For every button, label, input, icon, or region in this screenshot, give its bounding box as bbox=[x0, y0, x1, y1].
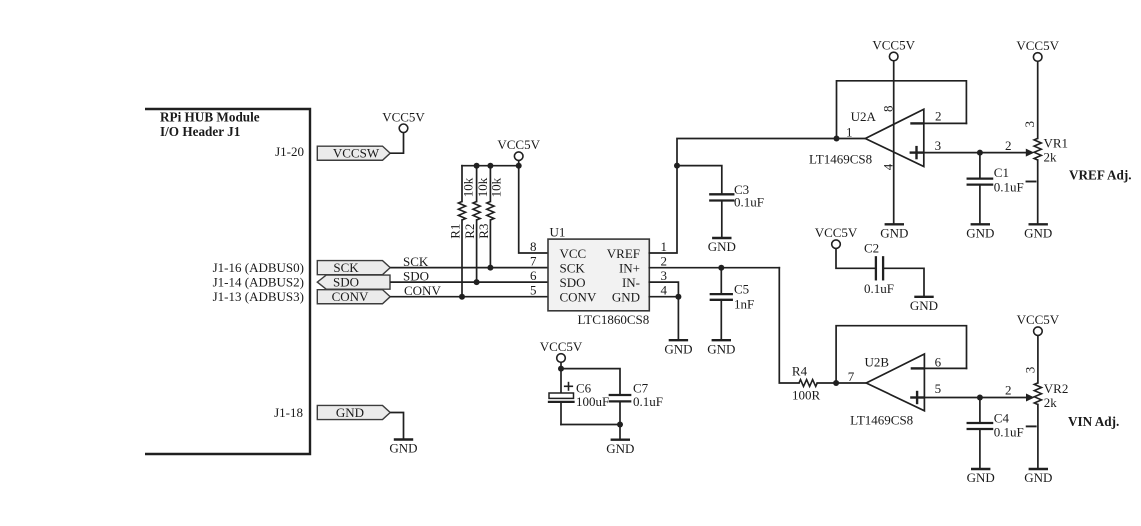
svg-text:SDO: SDO bbox=[333, 275, 359, 290]
svg-text:0.1uF: 0.1uF bbox=[864, 281, 894, 296]
svg-text:GND: GND bbox=[389, 441, 417, 456]
svg-text:100R: 100R bbox=[792, 387, 821, 402]
svg-text:0.1uF: 0.1uF bbox=[994, 425, 1024, 440]
svg-text:2k: 2k bbox=[1044, 395, 1058, 410]
svg-text:10k: 10k bbox=[460, 177, 475, 197]
svg-text:GND: GND bbox=[1024, 226, 1052, 241]
svg-text:J1-18: J1-18 bbox=[274, 405, 303, 420]
svg-text:4: 4 bbox=[881, 163, 896, 170]
svg-text:VCC5V: VCC5V bbox=[1016, 38, 1059, 53]
svg-text:VREF Adj.: VREF Adj. bbox=[1069, 167, 1132, 182]
svg-text:VCC5V: VCC5V bbox=[540, 339, 583, 354]
svg-text:3: 3 bbox=[1022, 367, 1037, 374]
svg-text:LT1469CS8: LT1469CS8 bbox=[850, 413, 913, 428]
svg-text:2: 2 bbox=[1005, 382, 1012, 397]
svg-text:5: 5 bbox=[935, 381, 942, 396]
svg-text:GND: GND bbox=[880, 226, 908, 241]
svg-text:5: 5 bbox=[530, 283, 537, 298]
svg-text:VCC5V: VCC5V bbox=[1017, 312, 1060, 327]
svg-text:2k: 2k bbox=[1044, 149, 1058, 164]
svg-text:CONV: CONV bbox=[332, 289, 369, 304]
svg-text:2: 2 bbox=[935, 109, 942, 124]
svg-text:SCK: SCK bbox=[403, 254, 429, 269]
svg-text:4: 4 bbox=[661, 283, 668, 298]
svg-text:VCC5V: VCC5V bbox=[815, 225, 858, 240]
svg-text:1nF: 1nF bbox=[734, 296, 754, 311]
svg-text:1: 1 bbox=[661, 239, 668, 254]
svg-text:0.1uF: 0.1uF bbox=[994, 180, 1024, 195]
svg-text:1: 1 bbox=[846, 124, 853, 139]
svg-text:VCC5V: VCC5V bbox=[497, 137, 540, 152]
svg-text:0.1uF: 0.1uF bbox=[734, 195, 764, 210]
svg-text:LTC1860CS8: LTC1860CS8 bbox=[578, 312, 650, 327]
svg-text:VCC5V: VCC5V bbox=[872, 38, 915, 53]
svg-text:100uF: 100uF bbox=[576, 394, 609, 409]
svg-text:CONV: CONV bbox=[560, 290, 597, 305]
svg-text:R3: R3 bbox=[476, 224, 491, 239]
svg-text:CONV: CONV bbox=[404, 283, 441, 298]
svg-text:SDO: SDO bbox=[403, 268, 429, 283]
svg-text:GND: GND bbox=[612, 290, 640, 305]
svg-text:GND: GND bbox=[336, 405, 364, 420]
svg-text:C2: C2 bbox=[864, 241, 879, 256]
svg-text:U1: U1 bbox=[550, 225, 566, 240]
svg-text:2: 2 bbox=[1005, 138, 1012, 153]
svg-text:8: 8 bbox=[530, 239, 537, 254]
svg-text:GND: GND bbox=[1024, 470, 1052, 485]
svg-text:VCCSW: VCCSW bbox=[333, 146, 380, 161]
svg-text:SDO: SDO bbox=[560, 275, 586, 290]
svg-text:7: 7 bbox=[848, 369, 855, 384]
svg-text:SCK: SCK bbox=[333, 260, 359, 275]
svg-text:IN-: IN- bbox=[622, 275, 640, 290]
svg-text:SCK: SCK bbox=[560, 260, 586, 275]
svg-text:2: 2 bbox=[661, 253, 668, 268]
svg-text:6: 6 bbox=[935, 354, 942, 369]
svg-text:J1-13 (ADBUS3): J1-13 (ADBUS3) bbox=[213, 289, 304, 304]
svg-text:GND: GND bbox=[910, 298, 938, 313]
svg-text:C4: C4 bbox=[994, 410, 1010, 425]
svg-text:J1-16 (ADBUS0): J1-16 (ADBUS0) bbox=[213, 260, 304, 275]
svg-text:J1-14 (ADBUS2): J1-14 (ADBUS2) bbox=[213, 275, 304, 290]
svg-text:3: 3 bbox=[661, 268, 668, 283]
svg-text:GND: GND bbox=[966, 226, 994, 241]
svg-text:6: 6 bbox=[530, 268, 537, 283]
svg-text:VR2: VR2 bbox=[1044, 381, 1069, 396]
svg-text:R2: R2 bbox=[462, 224, 477, 239]
svg-text:R4: R4 bbox=[792, 364, 808, 379]
svg-text:RPi HUB Module: RPi HUB Module bbox=[160, 109, 260, 124]
svg-text:VCC: VCC bbox=[560, 246, 587, 261]
svg-text:VIN Adj.: VIN Adj. bbox=[1068, 414, 1119, 429]
svg-text:GND: GND bbox=[708, 239, 736, 254]
svg-text:IN+: IN+ bbox=[619, 260, 640, 275]
svg-text:8: 8 bbox=[881, 106, 896, 113]
svg-text:J1-20: J1-20 bbox=[275, 144, 304, 159]
svg-text:GND: GND bbox=[664, 341, 692, 356]
svg-text:10k: 10k bbox=[475, 177, 490, 197]
svg-text:GND: GND bbox=[967, 470, 995, 485]
svg-text:0.1uF: 0.1uF bbox=[633, 394, 663, 409]
svg-text:GND: GND bbox=[606, 441, 634, 456]
svg-text:3: 3 bbox=[1022, 121, 1037, 128]
svg-text:U2A: U2A bbox=[851, 109, 877, 124]
svg-text:10k: 10k bbox=[489, 177, 504, 197]
svg-text:VCC5V: VCC5V bbox=[382, 109, 425, 124]
svg-text:U2B: U2B bbox=[865, 354, 890, 369]
svg-text:VREF: VREF bbox=[607, 246, 640, 261]
svg-text:LT1469CS8: LT1469CS8 bbox=[809, 152, 872, 167]
svg-text:R1: R1 bbox=[447, 224, 462, 239]
svg-text:3: 3 bbox=[935, 138, 942, 153]
svg-text:C5: C5 bbox=[734, 281, 749, 296]
svg-text:7: 7 bbox=[530, 253, 537, 268]
svg-text:I/O Header J1: I/O Header J1 bbox=[160, 124, 240, 139]
svg-text:C1: C1 bbox=[994, 165, 1009, 180]
svg-text:GND: GND bbox=[707, 341, 735, 356]
